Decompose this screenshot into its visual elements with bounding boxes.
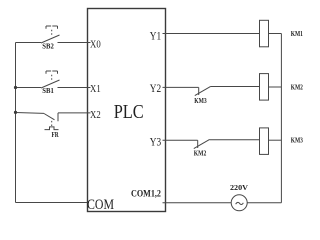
svg-text:Y1: Y1 bbox=[150, 30, 162, 42]
wire: SB1 to X1 bbox=[58, 87, 91, 89]
left power rail bbox=[15, 43, 17, 203]
svg-text:KM3: KM3 bbox=[194, 97, 207, 105]
svg-text:COM: COM bbox=[87, 197, 114, 213]
wire Y1 bbox=[163, 33, 260, 35]
svg-text:KM2: KM2 bbox=[194, 149, 207, 157]
pushbutton SB2 actuator stem (dashed) bbox=[51, 30, 53, 35]
pushbutton SB2 actuator cap bbox=[46, 26, 58, 29]
wire: KM3 to right rail bbox=[269, 139, 282, 141]
wire: KM2 contact to coil KM3 bbox=[210, 139, 260, 141]
NC contact KM2 blade bbox=[194, 139, 210, 148]
coil KM1 bbox=[260, 20, 269, 47]
svg-text:PLC: PLC bbox=[114, 101, 144, 123]
svg-text:X2: X2 bbox=[90, 109, 101, 121]
NC contact KM2 bar bbox=[197, 140, 199, 148]
pushbutton SB2 blade bbox=[41, 35, 60, 43]
wire: COM1,2 to AC source bbox=[163, 202, 232, 204]
wire: KM1 to right rail bbox=[269, 33, 282, 35]
svg-text:X0: X0 bbox=[90, 39, 101, 51]
coil KM2 bbox=[260, 74, 269, 101]
AC source sine symbol bbox=[236, 202, 244, 204]
svg-text:Y3: Y3 bbox=[150, 137, 162, 149]
right power rail bbox=[280, 34, 282, 203]
wire: rail to SB2 bbox=[16, 42, 42, 44]
wire: SB2 to X0 bbox=[58, 42, 91, 44]
pushbutton SB1 blade bbox=[41, 80, 60, 88]
svg-text:220V: 220V bbox=[230, 183, 249, 192]
pushbutton SB1 actuator stem (dashed) bbox=[51, 75, 53, 80]
wire Y3 bbox=[163, 139, 198, 141]
svg-text:KM3: KM3 bbox=[291, 137, 304, 145]
svg-text:FR: FR bbox=[52, 131, 60, 139]
thermal contact FR bar bbox=[57, 113, 59, 121]
NC contact KM3 bar bbox=[198, 87, 200, 95]
pushbutton SB1 actuator cap bbox=[46, 71, 58, 74]
wire: KM3 contact to coil KM2 bbox=[211, 86, 260, 88]
svg-text:KM1: KM1 bbox=[291, 30, 304, 38]
NC contact KM3 blade bbox=[195, 86, 211, 95]
wire: left rail to COM bbox=[16, 202, 90, 204]
FR thermal element bbox=[45, 127, 59, 130]
svg-text:Y2: Y2 bbox=[150, 83, 162, 95]
svg-text:KM2: KM2 bbox=[291, 84, 304, 92]
wire Y2 bbox=[163, 86, 199, 88]
wire: rail to FR bbox=[16, 112, 45, 115]
wire: KM2 to right rail bbox=[269, 86, 282, 88]
junction node rail/SB1 bbox=[14, 86, 17, 89]
wire: FR to X2 bbox=[58, 112, 91, 114]
coil KM3 bbox=[260, 128, 269, 154]
wire: rail to SB1 bbox=[16, 87, 42, 89]
svg-text:SB2: SB2 bbox=[42, 42, 54, 50]
wire: AC source to right rail bbox=[247, 202, 281, 204]
junction node rail/FR bbox=[14, 111, 17, 114]
svg-text:SB1: SB1 bbox=[42, 87, 54, 95]
FR actuator dashed link bbox=[51, 121, 53, 126]
thermal contact FR blade bbox=[44, 114, 55, 120]
PLC box U1 bbox=[88, 9, 166, 212]
AC source 220V circle bbox=[231, 195, 247, 211]
svg-text:X1: X1 bbox=[90, 83, 101, 95]
svg-text:COM1,2: COM1,2 bbox=[131, 189, 161, 199]
